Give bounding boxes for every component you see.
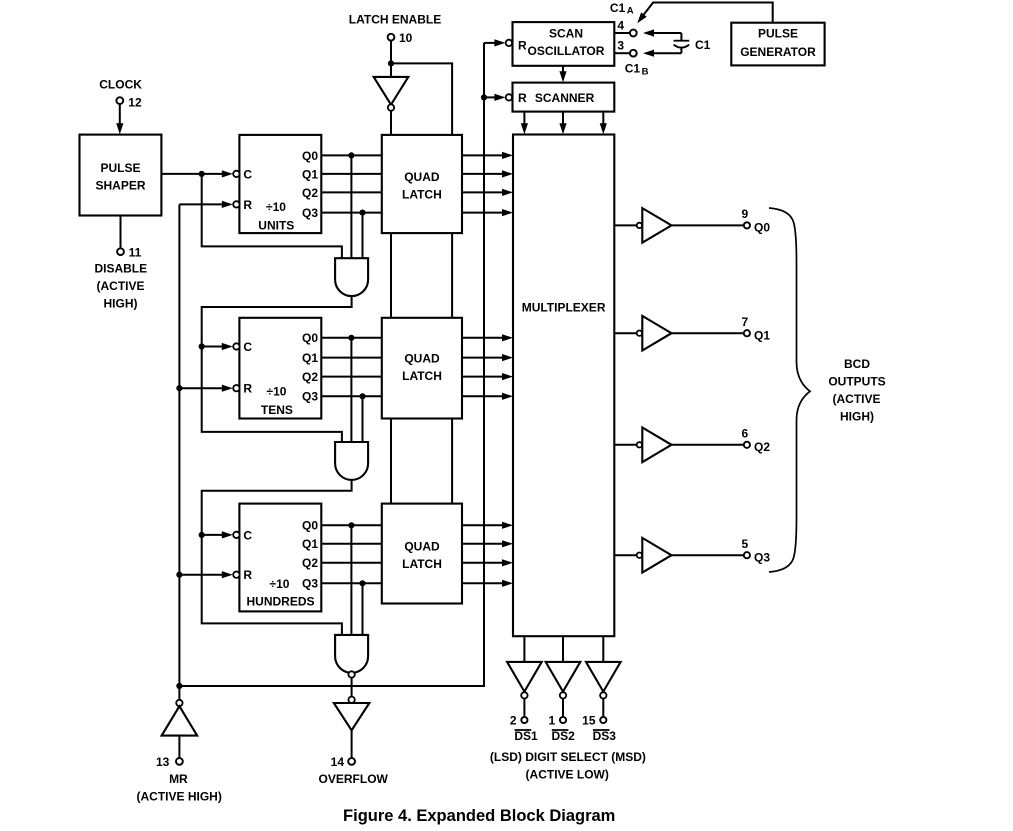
- wire hundreds Q1 to quad latch 3: [321, 543, 382, 545]
- junction carry tap at tens C: [199, 343, 205, 349]
- svg-text:Q1: Q1: [302, 351, 318, 365]
- svg-text:(ACTIVE: (ACTIVE: [97, 279, 145, 293]
- svg-text:Q2: Q2: [302, 186, 318, 200]
- inverter DS1: [507, 662, 542, 692]
- wire units Q2 to quad latch 1: [321, 191, 382, 193]
- AND gate 1 carry units: [335, 258, 368, 296]
- wire pin 4 from scan oscillator: [614, 32, 630, 34]
- wire units Q3 to AND gate 1: [362, 213, 364, 259]
- svg-text:10: 10: [399, 31, 413, 45]
- svg-text:Q0: Q0: [302, 149, 318, 163]
- buffer Q1 output: [637, 331, 642, 336]
- latch QUAD LATCH 3: [382, 504, 462, 604]
- wire master reset rail: [178, 204, 180, 686]
- svg-text:Q0: Q0: [302, 331, 318, 345]
- wire multiplexer to DS3 inverter: [602, 636, 604, 662]
- pin 13 terminal: [176, 758, 183, 765]
- brace BCD outputs: [769, 208, 810, 572]
- svg-text:OVERFLOW: OVERFLOW: [319, 772, 389, 786]
- svg-text:TENS: TENS: [261, 403, 293, 417]
- wire multiplexer to buffer Q3: [614, 554, 636, 556]
- latch QUAD LATCH 1: [382, 135, 462, 233]
- wire AND gate 1 output to tens C: [202, 296, 352, 442]
- svg-text:LATCH ENABLE: LATCH ENABLE: [349, 12, 441, 26]
- wire capacitor C1 top plate lead: [653, 32, 682, 34]
- block SCAN OSCILLATOR: [513, 22, 615, 66]
- svg-text:Q0: Q0: [302, 519, 318, 533]
- junction hundreds Q3: [359, 580, 365, 586]
- wire quad latch 1 out 2 to multiplexer: [462, 191, 504, 193]
- inverter DS3: [586, 662, 621, 692]
- wire tens Q1 to quad latch 2: [321, 357, 382, 359]
- wire quad latch 1 out 1 to multiplexer: [462, 173, 504, 175]
- svg-text:1: 1: [549, 714, 556, 728]
- svg-text:R: R: [243, 198, 252, 212]
- wire quad latch 3 out 3 to multiplexer: [462, 582, 504, 584]
- junction tens Q0: [348, 335, 354, 341]
- svg-text:Q1: Q1: [302, 537, 318, 551]
- svg-text:2: 2: [510, 714, 517, 728]
- pin 3 terminal C1B: [630, 50, 637, 57]
- wire CLOCK to pulse shaper with arrow: [119, 104, 121, 125]
- pin 4 terminal C1A: [630, 30, 637, 37]
- wire multiplexer to buffer Q1: [614, 332, 636, 334]
- capacitor C1: [680, 33, 682, 41]
- svg-text:R: R: [518, 91, 527, 105]
- pin 5 terminal: [744, 552, 750, 558]
- pin 11 terminal: [117, 248, 124, 255]
- inverter OVERFLOW buffer: [348, 697, 354, 703]
- svg-text:Figure 4. Expanded Block Diagr: Figure 4. Expanded Block Diagram: [343, 807, 615, 825]
- svg-text:Q1: Q1: [754, 328, 770, 342]
- svg-text:SHAPER: SHAPER: [95, 179, 145, 193]
- svg-text:C1: C1: [625, 62, 641, 76]
- wire reset to scanner R: [484, 96, 495, 98]
- pin 12 terminal: [116, 97, 123, 104]
- inverter latch enable: [374, 77, 409, 105]
- wire units Q0 to AND gate 1: [350, 155, 352, 258]
- wire tens Q3 to AND gate 2: [362, 396, 364, 442]
- svg-text:DISABLE: DISABLE: [94, 262, 147, 276]
- wire hundreds Q2 to quad latch 3: [321, 562, 382, 564]
- junction carry tap at units C: [199, 171, 205, 177]
- svg-text:LATCH: LATCH: [402, 557, 442, 571]
- wire reset to scan oscillator R: [484, 42, 495, 44]
- svg-text:(LSD) DIGIT SELECT (MSD): (LSD) DIGIT SELECT (MSD): [490, 750, 646, 764]
- svg-text:C1: C1: [610, 1, 626, 15]
- wire latch enable rail between latches 1-2: [451, 233, 453, 318]
- wire pulse shaper output to units C: [161, 173, 222, 175]
- wire tens Q3 to quad latch 2: [321, 395, 382, 397]
- svg-text:A: A: [627, 6, 634, 17]
- svg-text:MULTIPLEXER: MULTIPLEXER: [522, 301, 606, 315]
- wire hundreds Q0 to quad latch 3: [321, 524, 382, 526]
- wire latch enable to right rail: [391, 63, 452, 134]
- counter HUNDREDS divide-by-10: [239, 504, 321, 612]
- svg-text:Q3: Q3: [754, 550, 770, 564]
- wire units C to AND gate 1 left input: [202, 174, 342, 258]
- svg-text:DS3: DS3: [593, 729, 617, 743]
- svg-text:12: 12: [128, 95, 142, 109]
- wire overflow gate to inverter: [351, 678, 353, 697]
- svg-text:PULSE: PULSE: [758, 27, 798, 41]
- svg-text:C: C: [243, 167, 252, 181]
- wire multiplexer to DS1 inverter: [523, 636, 525, 662]
- svg-text:9: 9: [742, 207, 749, 221]
- buffer Q2 output: [637, 442, 642, 447]
- svg-text:C: C: [243, 528, 252, 542]
- counter UNITS divide-by-10: [239, 135, 321, 233]
- pin bubble scan oscillator R: [506, 40, 512, 46]
- svg-text:GENERATOR: GENERATOR: [740, 45, 816, 59]
- pin bubble units C: [233, 171, 239, 177]
- wire quad latch 1 out 0 to multiplexer: [462, 154, 504, 156]
- svg-text:SCANNER: SCANNER: [535, 91, 595, 105]
- svg-text:BCD: BCD: [844, 357, 870, 371]
- svg-text:OSCILLATOR: OSCILLATOR: [528, 44, 605, 58]
- svg-text:÷10: ÷10: [270, 577, 290, 591]
- pin bubble scanner R: [506, 94, 512, 100]
- wire inverted latch enable rail between latches 1-2: [390, 233, 392, 318]
- junction carry tap at hundreds C: [199, 532, 205, 538]
- pin 9 terminal: [744, 222, 750, 228]
- svg-text:UNITS: UNITS: [258, 218, 294, 232]
- svg-text:13: 13: [156, 755, 170, 769]
- wire hundreds R input: [179, 574, 222, 576]
- junction tens Q3: [359, 393, 365, 399]
- AND gate 2 carry tens: [335, 442, 368, 480]
- wire buffer to Q3 terminal: [672, 554, 744, 556]
- wire MR pin to inverter: [178, 736, 180, 759]
- wire hundreds Q0 to AND gate 3: [350, 525, 352, 635]
- pin 10 terminal: [388, 34, 395, 41]
- pin 1 terminal: [560, 717, 566, 723]
- svg-text:PULSE: PULSE: [100, 161, 140, 175]
- wire latch enable vertical: [390, 41, 392, 64]
- svg-text:Q2: Q2: [302, 556, 318, 570]
- junction tens R: [176, 385, 182, 391]
- svg-text:÷10: ÷10: [267, 384, 287, 398]
- junction latch enable: [388, 60, 394, 66]
- svg-text:4: 4: [617, 19, 624, 33]
- wire master reset horizontal to scanner rail: [179, 43, 484, 686]
- junction scanner R: [481, 94, 487, 100]
- svg-text:QUAD: QUAD: [404, 539, 440, 553]
- wire scanner select 2 to multiplexer: [562, 112, 564, 125]
- wire quad latch 3 out 1 to multiplexer: [462, 543, 504, 545]
- wire units R input: [179, 203, 222, 205]
- pin bubble hundreds C: [233, 532, 239, 538]
- pin 11 wire from pulse shaper: [120, 216, 122, 249]
- block MULTIPLEXER: [513, 135, 614, 637]
- svg-text:LATCH: LATCH: [402, 188, 442, 202]
- svg-text:OUTPUTS: OUTPUTS: [828, 375, 885, 389]
- wire scan oscillator to scanner with arrow: [562, 66, 564, 73]
- wire buffer to Q2 terminal: [672, 444, 744, 446]
- wire overflow inverter to pin 14: [351, 730, 353, 758]
- svg-text:DS1: DS1: [514, 729, 538, 743]
- wire master reset junction to MR inverter: [178, 686, 180, 700]
- wire tens Q0 to quad latch 2: [321, 337, 382, 339]
- wire tens C input: [202, 346, 222, 348]
- wire pin 3 from scan oscillator: [614, 52, 630, 54]
- svg-text:Q3: Q3: [302, 390, 318, 404]
- junction units Q0: [348, 152, 354, 158]
- wire units Q1 to quad latch 1: [321, 173, 382, 175]
- wire tens R input: [179, 387, 222, 389]
- svg-text:HIGH): HIGH): [104, 297, 138, 311]
- wire scanner select 1 to multiplexer: [523, 112, 525, 125]
- wire tens Q2 to quad latch 2: [321, 376, 382, 378]
- svg-text:LATCH: LATCH: [402, 369, 442, 383]
- pin 14 terminal: [348, 758, 355, 765]
- wire pulse generator to C1A with arrow: [643, 3, 773, 23]
- wire quad latch 2 out 2 to multiplexer: [462, 376, 504, 378]
- svg-text:B: B: [642, 67, 649, 78]
- wire AND gate 2 output to hundreds C: [202, 480, 352, 635]
- svg-text:SCAN: SCAN: [549, 27, 583, 41]
- pin 6 terminal: [744, 442, 750, 448]
- buffer Q0 output: [637, 223, 642, 228]
- block SCANNER: [513, 83, 615, 112]
- pin bubble tens C: [233, 343, 239, 349]
- wire quad latch 2 out 1 to multiplexer: [462, 357, 504, 359]
- wire inverter output to quad latch 1: [390, 111, 392, 135]
- svg-text:Q3: Q3: [302, 206, 318, 220]
- wire multiplexer to DS2 inverter: [562, 636, 564, 662]
- wire latch enable rail between latches 2-3: [451, 419, 453, 504]
- svg-text:(ACTIVE HIGH): (ACTIVE HIGH): [137, 789, 222, 803]
- svg-text:HIGH): HIGH): [840, 410, 874, 424]
- svg-text:15: 15: [582, 714, 596, 728]
- buffer Q3 output: [637, 553, 642, 558]
- wire quad latch 2 out 3 to multiplexer: [462, 395, 504, 397]
- pin 2 terminal: [521, 717, 527, 723]
- svg-text:5: 5: [742, 537, 749, 551]
- svg-text:QUAD: QUAD: [404, 351, 440, 365]
- pin bubble hundreds R: [233, 572, 239, 578]
- svg-text:HUNDREDS: HUNDREDS: [246, 595, 314, 609]
- NAND gate 3 overflow: [335, 635, 368, 673]
- svg-text:3: 3: [617, 39, 624, 53]
- junction hundreds R: [176, 572, 182, 578]
- svg-text:DS2: DS2: [552, 729, 576, 743]
- svg-text:R: R: [243, 568, 252, 582]
- wire hundreds Q3 to AND gate 3: [362, 583, 364, 635]
- wire to latch enable inverter: [390, 63, 392, 77]
- svg-text:MR: MR: [169, 772, 188, 786]
- svg-text:Q0: Q0: [754, 221, 770, 235]
- svg-text:R: R: [518, 39, 527, 53]
- svg-text:Q2: Q2: [302, 370, 318, 384]
- counter TENS divide-by-10: [239, 318, 321, 419]
- svg-text:14: 14: [331, 755, 345, 769]
- wire scanner select 3 to multiplexer: [602, 112, 604, 125]
- svg-text:÷10: ÷10: [266, 200, 286, 214]
- svg-text:6: 6: [742, 427, 749, 441]
- wire quad latch 3 out 2 to multiplexer: [462, 562, 504, 564]
- wire hundreds Q3 to quad latch 3: [321, 582, 382, 584]
- wire capacitor C1 bottom plate lead: [653, 52, 682, 54]
- wire buffer to Q0 terminal: [672, 224, 744, 226]
- wire quad latch 2 out 0 to multiplexer: [462, 337, 504, 339]
- latch QUAD LATCH 2: [382, 318, 462, 419]
- wire hundreds C input: [202, 534, 222, 536]
- wire multiplexer to buffer Q2: [614, 444, 636, 446]
- wire DS3 to terminal: [602, 699, 604, 717]
- block PULSE SHAPER: [80, 135, 162, 216]
- wire tens Q0 to AND gate 2: [350, 338, 352, 442]
- junction units Q3: [359, 210, 365, 216]
- wire DS1 to terminal: [523, 699, 525, 717]
- inverter DS2: [546, 662, 581, 692]
- pin bubble tens R: [233, 385, 239, 391]
- svg-text:C: C: [243, 340, 252, 354]
- wire inverted latch enable rail between latches 2-3: [390, 419, 392, 504]
- svg-text:CLOCK: CLOCK: [99, 77, 142, 91]
- svg-text:Q2: Q2: [754, 440, 770, 454]
- wire multiplexer to buffer Q0: [614, 224, 636, 226]
- wire units Q0 to quad latch 1: [321, 154, 382, 156]
- wire DS2 to terminal: [562, 699, 564, 717]
- svg-text:C1: C1: [695, 38, 711, 52]
- pin 15 terminal: [600, 717, 606, 723]
- svg-text:R: R: [243, 382, 252, 396]
- wire quad latch 1 out 3 to multiplexer: [462, 212, 504, 214]
- wire units Q3 to quad latch 1: [321, 212, 382, 214]
- svg-text:Q1: Q1: [302, 167, 318, 181]
- svg-text:QUAD: QUAD: [404, 170, 440, 184]
- svg-text:Q3: Q3: [302, 577, 318, 591]
- svg-text:(ACTIVE: (ACTIVE: [833, 392, 881, 406]
- svg-text:11: 11: [129, 245, 142, 259]
- svg-text:7: 7: [742, 315, 749, 329]
- pin bubble units R: [233, 201, 239, 207]
- junction master reset: [176, 683, 182, 689]
- wire buffer to Q1 terminal: [672, 332, 744, 334]
- pin 7 terminal: [744, 330, 750, 336]
- inverter MR input: [176, 700, 182, 706]
- wire quad latch 3 out 0 to multiplexer: [462, 524, 504, 526]
- block PULSE GENERATOR: [731, 23, 824, 66]
- junction hundreds Q0: [348, 522, 354, 528]
- svg-text:(ACTIVE LOW): (ACTIVE LOW): [526, 767, 609, 781]
